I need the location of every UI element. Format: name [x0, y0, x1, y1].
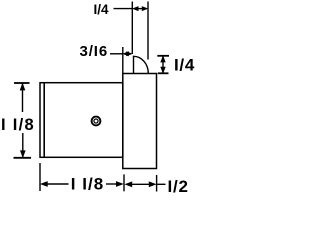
top dimension leader: [114, 8, 133, 10]
right 1/4 dimension line: [162, 56, 164, 74]
left 1 1/8 dimension bottom bar: [14, 157, 32, 159]
bottom 1 1/8 left line: [47, 183, 69, 185]
svg-text:I I/8: I I/8: [71, 175, 104, 194]
bottom 1/2 trailing line: [157, 183, 166, 185]
bottom left extension line: [39, 163, 41, 191]
top dimension right arrow: [142, 6, 149, 11]
3/16 left arrow: [122, 51, 129, 56]
svg-text:I I/8: I I/8: [1, 116, 35, 134]
3/16 left extension line (plate face extended): [122, 47, 124, 73]
screw circle inner: [94, 119, 98, 123]
top dimension left extension line: [131, 2, 133, 55]
3/16 right arrow: [126, 51, 133, 56]
left 1 1/8 down arrow: [20, 150, 26, 158]
bottom middle extension line: [123, 174, 125, 191]
top dimension middle line: [137, 8, 143, 10]
left 1 1/8 dimension top bar: [14, 82, 30, 84]
svg-text:I/2: I/2: [168, 177, 189, 196]
bottom 1/2 left arrow: [124, 181, 132, 187]
right 1/4 dimension top bar: [157, 55, 169, 57]
bump quarter-round on plate top: [134, 56, 149, 73]
svg-text:3/I6: 3/I6: [80, 43, 109, 60]
bottom 1/2 middle line: [132, 183, 151, 185]
bottom 1 1/8 right line: [106, 183, 117, 185]
body left rectangle (part outline): [40, 83, 123, 158]
bottom 1 1/8 left arrow: [40, 181, 48, 187]
plate right vertical rectangle (part outline): [123, 74, 157, 169]
right 1/4 dimension bottom bar: [158, 72, 169, 74]
bottom 1 1/8 right arrow: [116, 181, 124, 187]
left 1 1/8 dimension line upper: [22, 83, 24, 112]
right 1/4 down arrow: [160, 67, 165, 74]
bottom right extension line: [156, 175, 158, 192]
top dimension right extension line: [147, 2, 149, 60]
3/16 leader: [110, 53, 123, 55]
svg-text:I/4: I/4: [94, 2, 110, 17]
svg-text:I/4: I/4: [174, 55, 195, 74]
bottom 1/2 right arrow: [149, 181, 157, 187]
screw circle outer: [92, 117, 101, 126]
right 1/4 up arrow: [160, 55, 165, 62]
top dimension left arrow: [132, 6, 139, 11]
left 1 1/8 dimension line lower: [22, 133, 24, 158]
left 1 1/8 up arrow: [20, 83, 26, 91]
body inner left edge line: [43, 83, 45, 157]
